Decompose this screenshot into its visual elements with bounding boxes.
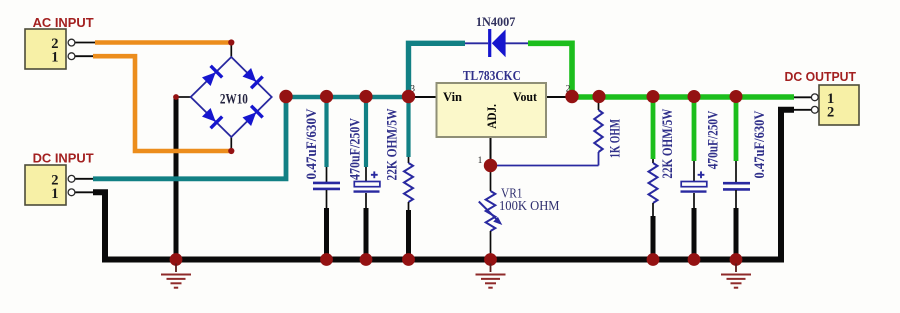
svg-text:1: 1 <box>51 50 58 66</box>
svg-text:1: 1 <box>478 156 483 166</box>
svg-text:DC OUTPUT: DC OUTPUT <box>785 69 857 84</box>
svg-text:0.47uF/630V: 0.47uF/630V <box>752 110 768 178</box>
svg-text:1N4007: 1N4007 <box>476 15 516 29</box>
svg-text:470uF/250V: 470uF/250V <box>706 111 722 170</box>
svg-text:2W10: 2W10 <box>220 91 248 107</box>
svg-text:22K OHM/5W: 22K OHM/5W <box>660 109 676 179</box>
svg-text:Vout: Vout <box>513 90 538 104</box>
svg-text:1K OHM: 1K OHM <box>608 119 624 158</box>
svg-text:TL783CKC: TL783CKC <box>463 68 521 83</box>
svg-text:AC INPUT: AC INPUT <box>33 15 94 30</box>
svg-text:22K OHM/5W: 22K OHM/5W <box>385 109 401 181</box>
svg-text:1: 1 <box>51 186 58 202</box>
svg-text:470uF/250V: 470uF/250V <box>348 118 364 180</box>
svg-text:Vin: Vin <box>443 90 462 104</box>
svg-text:100K OHM: 100K OHM <box>499 199 560 214</box>
svg-text:DC INPUT: DC INPUT <box>33 151 94 166</box>
svg-text:0.47uF/630V: 0.47uF/630V <box>304 108 320 179</box>
svg-text:ADJ.: ADJ. <box>485 104 499 129</box>
svg-text:2: 2 <box>827 104 834 120</box>
